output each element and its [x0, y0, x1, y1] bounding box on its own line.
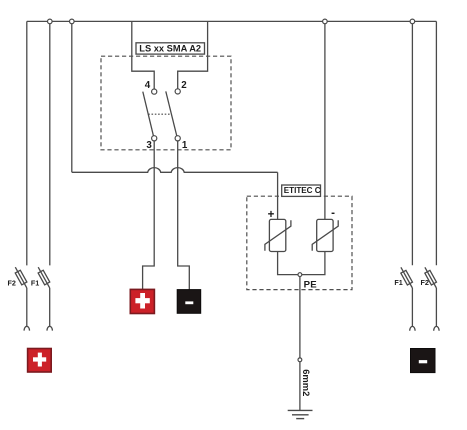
switch blade pole A — [143, 92, 154, 137]
wire mid bus with hops over switch leads — [72, 168, 278, 173]
varistor RV1 diagonal — [265, 220, 291, 251]
node junction on top bus 2 — [70, 19, 75, 24]
svg-text:F1: F1 — [31, 278, 39, 287]
fuse F2 right — [425, 267, 439, 330]
node junction on top bus 4 — [410, 19, 415, 24]
wire right PV- drop to fuse F2 — [435, 21, 437, 265]
terminal - bottom right black — [411, 349, 436, 373]
svg-text:F2: F2 — [421, 278, 429, 287]
svg-text:F1: F1 — [394, 278, 402, 287]
varistor RV2 body — [317, 219, 333, 251]
wire left PV+ drop to fuse F2 — [26, 21, 28, 265]
wire PE junction down to earth — [299, 277, 301, 411]
wire mid bus drop to varistor + — [277, 172, 279, 219]
ground symbol — [288, 410, 313, 418]
wire drop to fuse F1 right — [411, 21, 413, 265]
svg-text:2: 2 — [181, 80, 187, 91]
fuse F2 left — [15, 267, 29, 330]
svg-text:6mm2: 6mm2 — [301, 369, 312, 396]
terminal + bottom left red — [28, 349, 52, 373]
wire from contact 3 to mid + terminal — [143, 141, 155, 290]
wire top bus into LS switch pole 2 — [178, 21, 208, 88]
switch mechanical linkage — [148, 113, 171, 115]
label box ETITEC C — [282, 185, 321, 196]
contact 2 circle — [175, 89, 180, 94]
svg-text:PE: PE — [304, 280, 318, 291]
fuse F1 left — [38, 267, 52, 330]
contact 4 circle — [152, 89, 157, 94]
fuse F1 right — [401, 267, 415, 330]
switch blade pole B — [166, 91, 177, 136]
terminal - mid black — [177, 290, 201, 314]
wire drop to fuse F1 left — [49, 21, 51, 265]
svg-text:ETITEC C: ETITEC C — [284, 186, 321, 195]
node junction on top bus 3 — [323, 19, 328, 24]
terminal + mid red — [130, 289, 154, 313]
varistor RV1 body — [269, 219, 285, 251]
wire from contact 1 to mid - terminal — [178, 141, 190, 290]
svg-text:+: + — [268, 209, 275, 221]
svg-text:4: 4 — [145, 80, 151, 91]
label box LS xx SMA A2 — [136, 43, 205, 54]
contact 3 circle — [152, 136, 157, 141]
svg-text:F2: F2 — [8, 278, 16, 287]
breaker LS dashed enclosure — [101, 56, 231, 150]
varistor RV2 diagonal — [312, 220, 338, 251]
svg-text:LS xx SMA A2: LS xx SMA A2 — [139, 44, 201, 54]
wire top bus — [27, 20, 437, 22]
svg-text:-: - — [331, 208, 335, 220]
wire drop to mid bus — [71, 21, 73, 172]
node on earth conductor — [298, 358, 302, 362]
wire varistor bottoms to PE junction — [278, 252, 325, 275]
node junction on top bus 1 — [48, 19, 53, 24]
wire top bus drop to varistor - — [324, 21, 326, 219]
wire top bus into LS switch pole 4 — [132, 21, 154, 89]
svg-text:3: 3 — [146, 140, 152, 151]
node PE junction — [298, 273, 302, 277]
svg-text:1: 1 — [182, 140, 188, 151]
contact 1 circle — [175, 136, 180, 141]
SPD ETITEC dashed enclosure — [247, 196, 352, 289]
